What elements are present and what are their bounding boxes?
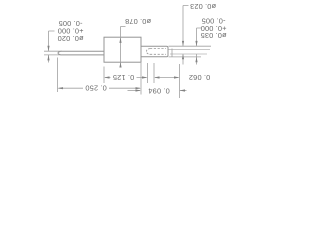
svg-text:0. 250: 0. 250 <box>85 84 106 93</box>
svg-text:ø0. 023: ø0. 023 <box>190 2 216 11</box>
svg-text:ø0. 035: ø0. 035 <box>200 31 226 40</box>
svg-text:ø0. 078: ø0. 078 <box>125 17 151 26</box>
svg-text:0. 125: 0. 125 <box>113 73 134 82</box>
svg-text:0. 062: 0. 062 <box>189 73 210 82</box>
svg-text:0. 094: 0. 094 <box>148 87 169 96</box>
svg-text:ø0. 020: ø0. 020 <box>57 34 83 43</box>
